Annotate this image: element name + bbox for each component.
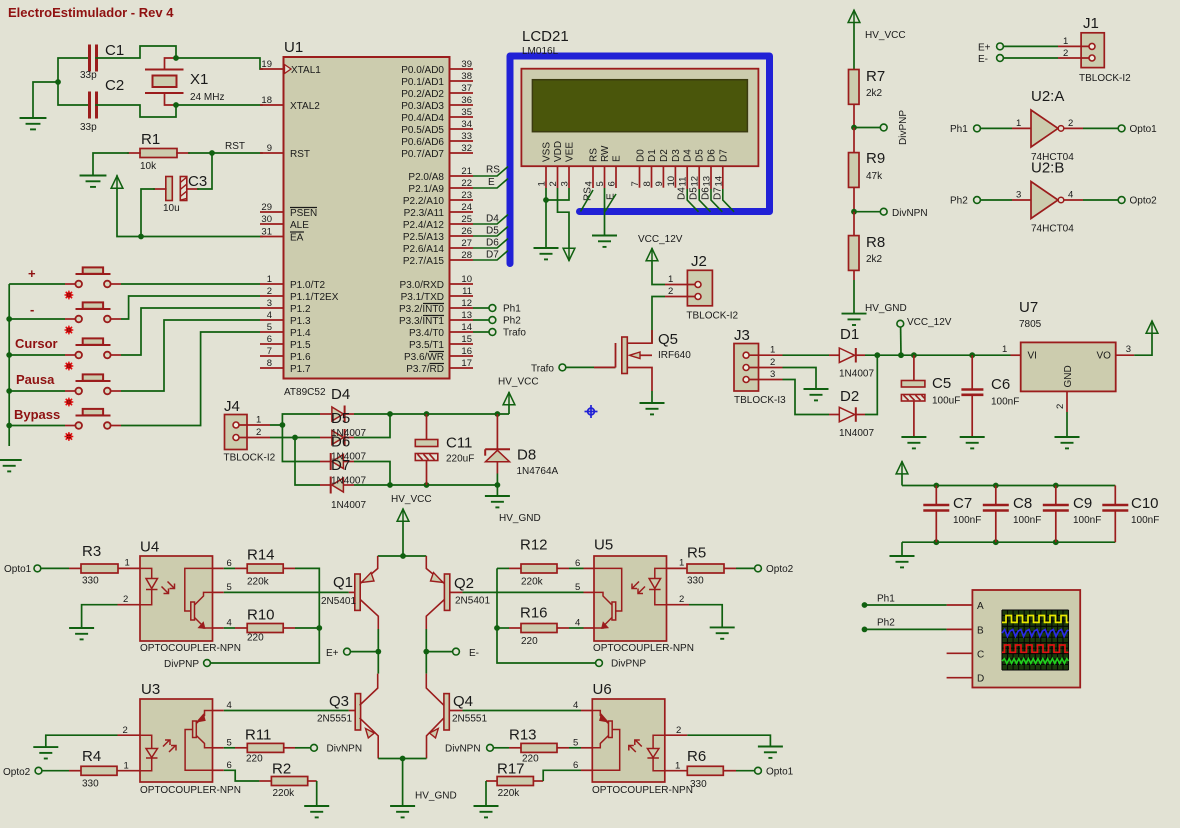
svg-text:220k: 220k <box>498 788 521 799</box>
bus blue <box>510 56 770 264</box>
svg-text:P2.7/A15: P2.7/A15 <box>403 256 445 267</box>
svg-text:2: 2 <box>676 725 681 736</box>
resistor R8 <box>849 212 886 280</box>
svg-text:HV_GND: HV_GND <box>865 303 907 314</box>
diode D8 zener <box>485 414 558 485</box>
wire btn1 to pin1 <box>121 283 260 285</box>
svg-text:D4: D4 <box>677 187 688 200</box>
svg-text:DivNPN: DivNPN <box>892 208 928 219</box>
svg-text:P0.5/AD5: P0.5/AD5 <box>401 125 444 136</box>
diode D1 <box>829 326 874 380</box>
svg-text:Cursor: Cursor <box>15 336 58 351</box>
svg-text:P1.5: P1.5 <box>290 340 311 351</box>
overbars PSEN EA <box>290 207 317 209</box>
svg-text:Ph1: Ph1 <box>950 124 968 135</box>
svg-text:5: 5 <box>595 181 606 186</box>
svg-text:OPTOCOUPLER-NPN: OPTOCOUPLER-NPN <box>593 643 694 654</box>
svg-text:8: 8 <box>267 358 272 369</box>
svg-text:12: 12 <box>461 298 472 309</box>
svg-text:16: 16 <box>461 346 472 357</box>
terminal Ph2 <box>489 317 496 324</box>
terminal DivNPN left <box>295 747 310 749</box>
svg-text:3: 3 <box>560 181 571 186</box>
svg-text:1: 1 <box>1016 118 1021 129</box>
trace A yellow <box>1002 616 1069 623</box>
left pin names <box>290 65 339 375</box>
optocoupler U5 <box>575 537 694 655</box>
svg-text:7: 7 <box>630 181 641 186</box>
wire R1 left to ground <box>93 153 128 176</box>
wire bridge minus rail <box>354 484 497 486</box>
svg-text:2: 2 <box>668 286 673 297</box>
svg-text:1N4007: 1N4007 <box>839 369 874 380</box>
svg-text:P1.4: P1.4 <box>290 328 311 339</box>
terminal Opto2 out <box>1083 199 1118 201</box>
svg-text:D1: D1 <box>840 326 859 343</box>
svg-text:25: 25 <box>461 214 472 225</box>
button MINUS <box>65 302 121 322</box>
terminal Opto1 right <box>736 770 755 772</box>
svg-text:220: 220 <box>246 754 263 765</box>
svg-text:R16: R16 <box>520 605 548 622</box>
svg-text:EA: EA <box>290 233 304 244</box>
lcd pin stubs <box>546 166 723 189</box>
wire RW to ground <box>604 188 606 236</box>
svg-text:C: C <box>977 649 984 660</box>
connector J3 TBLOCK-I3 <box>734 327 786 406</box>
wire U6 pin2 to ground <box>687 735 770 746</box>
svg-text:R5: R5 <box>687 545 706 562</box>
svg-text:B: B <box>977 625 984 636</box>
svg-text:VO: VO <box>1097 351 1112 362</box>
svg-text:4: 4 <box>267 310 272 321</box>
svg-text:6: 6 <box>267 334 272 345</box>
svg-text:OPTOCOUPLER-NPN: OPTOCOUPLER-NPN <box>140 643 241 654</box>
right pin numbers <box>461 59 472 369</box>
svg-text:32: 32 <box>461 143 472 154</box>
svg-text:330: 330 <box>687 576 704 587</box>
svg-text:+: + <box>28 266 36 281</box>
svg-text:C6: C6 <box>991 376 1010 393</box>
svg-text:P2.2/A10: P2.2/A10 <box>403 196 445 207</box>
button Pausa <box>65 374 121 394</box>
svg-text:OPTOCOUPLER-NPN: OPTOCOUPLER-NPN <box>592 785 693 796</box>
wire D5 from pin26 <box>473 227 508 237</box>
diode D4 <box>320 406 354 423</box>
svg-text:24: 24 <box>461 202 472 213</box>
wire to ground <box>901 542 903 556</box>
wire btn5 to pin5 <box>121 332 260 426</box>
node X1 top <box>173 55 179 61</box>
svg-text:5: 5 <box>267 322 272 333</box>
svg-text:D2: D2 <box>659 149 670 162</box>
svg-text:LM016L: LM016L <box>522 46 559 57</box>
svg-text:P3.3/INT1: P3.3/INT1 <box>399 316 444 327</box>
svg-text:Opto2: Opto2 <box>766 564 794 575</box>
resistor R10 <box>224 607 295 644</box>
svg-text:R11: R11 <box>245 727 271 744</box>
left pin stubs <box>260 69 284 368</box>
svg-text:D5: D5 <box>695 149 706 162</box>
svg-text:D5: D5 <box>689 187 700 200</box>
svg-text:Ph2: Ph2 <box>503 316 521 327</box>
svg-text:2: 2 <box>1068 118 1073 129</box>
optocoupler U6 <box>573 681 693 796</box>
svg-text:100nF: 100nF <box>991 397 1019 408</box>
lcd screen <box>532 80 747 132</box>
connector J4 TBLOCK-I2 <box>224 398 276 464</box>
svg-text:100nF: 100nF <box>953 515 981 526</box>
wire btn3 to pin3 <box>121 308 260 355</box>
resistor R3 <box>69 543 118 587</box>
svg-text:R1: R1 <box>141 131 160 148</box>
ic U1 body <box>284 57 450 379</box>
svg-text:TBLOCK-I2: TBLOCK-I2 <box>1079 73 1131 84</box>
wire D6 from pin27 <box>473 239 508 249</box>
ground HV_GND bridge <box>496 485 498 496</box>
svg-text:C9: C9 <box>1073 495 1092 512</box>
wire btn3 left <box>9 354 65 356</box>
wire C3 right to RST node <box>198 153 212 189</box>
terminal DivPNP right <box>596 660 603 667</box>
wire U5 pin2 to ground <box>689 605 722 628</box>
svg-text:2: 2 <box>123 594 128 605</box>
svg-text:P2.5/A13: P2.5/A13 <box>403 232 445 243</box>
svg-text:D1: D1 <box>647 149 658 162</box>
op-amp U2:A 74HCT04 <box>1012 88 1083 163</box>
svg-text:U7: U7 <box>1019 299 1038 316</box>
svg-text:C8: C8 <box>1013 495 1032 512</box>
wire J3 pin1 to D1 <box>783 354 830 356</box>
wire to HV_GND <box>402 759 404 807</box>
power arrow HV_VCC top <box>848 10 860 23</box>
svg-text:E: E <box>612 155 623 162</box>
wire left bus <box>8 284 10 446</box>
scope channel pins <box>947 605 973 678</box>
crystal X1 <box>146 58 224 105</box>
svg-text:P0.3/AD3: P0.3/AD3 <box>401 101 444 112</box>
svg-text:P1.1/T2EX: P1.1/T2EX <box>290 292 339 303</box>
resistor R11 <box>224 727 295 765</box>
svg-text:2: 2 <box>1055 404 1066 409</box>
capacitor C1 <box>80 42 124 81</box>
svg-text:3: 3 <box>770 369 775 380</box>
svg-text:11: 11 <box>462 286 472 297</box>
svg-text:C1: C1 <box>105 42 124 59</box>
svg-text:1: 1 <box>668 274 673 285</box>
wire arrow to J2 pin1 <box>652 261 665 285</box>
svg-text:Opto2: Opto2 <box>3 767 31 778</box>
svg-text:R2: R2 <box>272 761 291 778</box>
svg-text:Opto1: Opto1 <box>1130 124 1158 135</box>
svg-text:2: 2 <box>770 357 775 368</box>
svg-text:24 MHz: 24 MHz <box>190 92 224 103</box>
svg-text:Opto1: Opto1 <box>766 767 794 778</box>
svg-text:E: E <box>488 177 495 188</box>
svg-text:D0: D0 <box>636 149 647 162</box>
svg-text:R14: R14 <box>247 547 275 564</box>
svg-text:D: D <box>977 674 984 685</box>
svg-text:R6: R6 <box>687 748 706 765</box>
wire bridge bottom rail <box>378 758 426 760</box>
capacitor C5 <box>901 355 960 437</box>
svg-text:E+: E+ <box>326 648 339 659</box>
svg-text:Trafo: Trafo <box>503 328 526 339</box>
svg-text:TBLOCK-I2: TBLOCK-I2 <box>686 311 738 322</box>
svg-text:D4: D4 <box>683 149 694 162</box>
svg-text:330: 330 <box>690 779 707 790</box>
svg-text:J4: J4 <box>224 398 240 415</box>
svg-text:1N4764A: 1N4764A <box>517 466 559 477</box>
wire D5 bus entry <box>699 189 710 212</box>
lcd pin numbers rotated <box>537 176 725 187</box>
svg-text:1: 1 <box>679 558 684 569</box>
wire U7 out to arrow <box>1134 334 1152 356</box>
svg-text:13: 13 <box>461 310 472 321</box>
wire C3 left down to EA line <box>141 189 154 237</box>
svg-text:R17: R17 <box>497 761 525 778</box>
terminal E- <box>453 648 460 655</box>
optocoupler U3 <box>118 681 241 796</box>
wire Q2 collector to Q4 <box>425 629 427 674</box>
svg-text:TBLOCK-I3: TBLOCK-I3 <box>734 395 786 406</box>
svg-text:D6: D6 <box>707 149 718 162</box>
wire power to EA <box>117 189 262 237</box>
wire D2 to rail <box>865 355 877 414</box>
svg-text:7805: 7805 <box>1019 319 1042 330</box>
button Cursor <box>65 338 121 358</box>
node DivNPN <box>851 209 857 215</box>
trace D green <box>1002 659 1069 664</box>
svg-text:Opto2: Opto2 <box>1130 196 1158 207</box>
regulator U7 7805 <box>1002 299 1134 412</box>
svg-text:6: 6 <box>573 760 578 771</box>
svg-text:RST: RST <box>290 149 310 160</box>
node junction C1C2 <box>55 79 61 85</box>
svg-text:10k: 10k <box>140 161 157 172</box>
resistor R16 <box>497 605 584 648</box>
wire Q1 collector to Q3 <box>377 629 379 674</box>
svg-text:DivPNP: DivPNP <box>164 659 199 670</box>
svg-text:DivPNP: DivPNP <box>611 659 646 670</box>
svg-text:VDD: VDD <box>553 141 564 162</box>
right pin stubs <box>450 69 474 368</box>
svg-text:11: 11 <box>678 177 689 187</box>
svg-text:Q1: Q1 <box>333 574 353 591</box>
svg-text:4: 4 <box>584 181 595 186</box>
wire top rail <box>902 485 1115 487</box>
wire U7 gnd <box>1066 412 1068 437</box>
button Bypass <box>65 409 121 429</box>
svg-text:2: 2 <box>256 427 261 438</box>
svg-text:18: 18 <box>261 95 272 106</box>
led + transistor interior <box>140 711 213 771</box>
capacitor C7 <box>923 486 981 543</box>
svg-text:X1: X1 <box>190 71 208 88</box>
wire U4 pin5 to Q1 base <box>224 591 349 593</box>
svg-text:R7: R7 <box>866 68 885 85</box>
svg-text:8: 8 <box>642 181 653 186</box>
svg-text:2N5551: 2N5551 <box>317 714 352 725</box>
svg-text:2: 2 <box>1063 48 1068 59</box>
svg-text:220k: 220k <box>521 577 544 588</box>
svg-text:47k: 47k <box>866 171 883 182</box>
svg-text:19: 19 <box>261 59 272 70</box>
svg-text:RW: RW <box>600 145 611 162</box>
ground left bus <box>0 460 22 471</box>
svg-text:38: 38 <box>461 71 472 82</box>
resistor R9 <box>849 128 886 212</box>
svg-text:P0.0/AD0: P0.0/AD0 <box>401 65 444 76</box>
svg-text:14: 14 <box>461 322 472 333</box>
svg-text:330: 330 <box>82 576 99 587</box>
svg-text:J1: J1 <box>1083 15 1099 32</box>
svg-text:14: 14 <box>713 176 724 187</box>
svg-text:D7: D7 <box>719 149 730 162</box>
svg-text:HV_GND: HV_GND <box>415 791 457 802</box>
resistor R5 <box>687 545 736 587</box>
svg-text:6: 6 <box>607 181 618 186</box>
wire btn4 left <box>9 390 65 392</box>
svg-text:33: 33 <box>461 131 472 142</box>
svg-text:P2.4/A12: P2.4/A12 <box>403 220 445 231</box>
svg-text:9: 9 <box>654 181 665 186</box>
svg-text:VCC_12V: VCC_12V <box>907 317 952 328</box>
svg-text:39: 39 <box>461 59 472 70</box>
resistor R4 <box>69 748 117 790</box>
svg-text:33p: 33p <box>80 122 97 133</box>
svg-text:220uF: 220uF <box>446 454 474 465</box>
transistor Q2 2N5401 <box>426 556 583 629</box>
svg-text:2: 2 <box>267 286 272 297</box>
wire J4 pin2 to D5/D7 <box>270 437 320 439</box>
svg-text:3: 3 <box>1016 190 1021 201</box>
svg-text:HV_GND: HV_GND <box>499 513 541 524</box>
svg-text:2k2: 2k2 <box>866 254 883 265</box>
wire 12V rail <box>865 354 1011 356</box>
svg-text:220k: 220k <box>247 577 270 588</box>
svg-text:1N4007: 1N4007 <box>331 500 366 511</box>
svg-text:Q5: Q5 <box>658 331 678 348</box>
svg-text:J3: J3 <box>734 327 750 344</box>
wire riser R14/R10 to DivPNP <box>211 568 320 663</box>
svg-text:D8: D8 <box>517 447 536 464</box>
diode D7 <box>320 477 354 494</box>
ground R1 <box>81 176 106 187</box>
trace B blue <box>1002 630 1069 637</box>
svg-text:28: 28 <box>461 250 472 261</box>
svg-text:1: 1 <box>125 558 130 569</box>
svg-text:P3.4/T0: P3.4/T0 <box>409 328 444 339</box>
led + transistor interior <box>594 568 667 628</box>
wire btn1 left <box>9 283 65 285</box>
wire riser R12/R16 to DivPNP <box>497 568 596 663</box>
svg-text:D5: D5 <box>486 226 499 237</box>
terminal Trafo <box>489 329 496 336</box>
svg-text:C5: C5 <box>932 375 951 392</box>
svg-text:IRF640: IRF640 <box>658 350 691 361</box>
svg-text:R8: R8 <box>866 234 885 251</box>
svg-text:D6: D6 <box>486 238 499 249</box>
svg-text:2N5551: 2N5551 <box>452 714 487 725</box>
svg-text:E-: E- <box>978 54 988 65</box>
capacitor C11 <box>415 414 474 485</box>
svg-text:Ph1: Ph1 <box>877 594 895 605</box>
wire btn5 left <box>9 425 65 427</box>
svg-text:ElectroEstimulador - Rev 4: ElectroEstimulador - Rev 4 <box>8 5 174 20</box>
svg-text:1: 1 <box>124 761 129 772</box>
svg-text:4: 4 <box>573 700 578 711</box>
svg-text:Ph1: Ph1 <box>503 304 521 315</box>
svg-text:P3.7/RD: P3.7/RD <box>406 364 444 375</box>
svg-text:13: 13 <box>702 176 713 187</box>
svg-text:P0.6/AD6: P0.6/AD6 <box>401 137 444 148</box>
resistor R2 <box>224 761 317 800</box>
svg-text:DivNPN: DivNPN <box>327 744 363 755</box>
svg-text:D4: D4 <box>331 386 350 403</box>
svg-text:17: 17 <box>461 358 472 369</box>
svg-text:1: 1 <box>537 181 548 186</box>
svg-text:22: 22 <box>461 178 472 189</box>
diode D2 <box>829 388 874 439</box>
svg-text:P0.7/AD7: P0.7/AD7 <box>401 149 444 160</box>
svg-text:Ph2: Ph2 <box>877 618 895 629</box>
svg-text:U1: U1 <box>284 39 303 56</box>
svg-text:-: - <box>30 302 34 317</box>
svg-text:D7: D7 <box>486 250 499 261</box>
svg-text:1: 1 <box>770 345 775 356</box>
terminal Opto1 out <box>1083 127 1118 129</box>
svg-text:OPTOCOUPLER-NPN: OPTOCOUPLER-NPN <box>140 785 241 796</box>
svg-text:C11: C11 <box>446 435 472 452</box>
svg-text:33p: 33p <box>80 70 97 81</box>
terminal Ph1 <box>489 305 496 312</box>
svg-text:P2.1/A9: P2.1/A9 <box>408 184 444 195</box>
wire R1 right to RST <box>189 152 262 154</box>
svg-text:1: 1 <box>675 761 680 772</box>
svg-text:1: 1 <box>1002 344 1007 355</box>
svg-text:D6: D6 <box>701 187 712 200</box>
wire U4 pin2 to ground <box>82 605 118 628</box>
svg-text:P2.0/A8: P2.0/A8 <box>408 172 444 183</box>
wire C1 to XTAL1 <box>96 46 262 69</box>
wire E from pin22 <box>473 179 508 189</box>
led + transistor interior <box>140 568 213 628</box>
svg-text:4: 4 <box>575 618 580 629</box>
capacitor C3 <box>154 173 207 214</box>
svg-text:5: 5 <box>575 582 580 593</box>
svg-text:Q2: Q2 <box>454 575 474 592</box>
svg-text:26: 26 <box>461 226 472 237</box>
svg-text:P0.2/AD2: P0.2/AD2 <box>401 89 444 100</box>
svg-text:D7: D7 <box>712 187 723 200</box>
svg-text:P1.0/T2: P1.0/T2 <box>290 280 325 291</box>
wire ground stem <box>33 82 58 118</box>
svg-text:15: 15 <box>461 334 472 345</box>
svg-text:RST: RST <box>225 141 245 152</box>
svg-text:D2: D2 <box>840 388 859 405</box>
wire pin14 to Trafo <box>473 331 489 333</box>
svg-text:220: 220 <box>247 633 264 644</box>
terminal VCC_12V <box>897 320 904 327</box>
svg-text:P3.5/T1: P3.5/T1 <box>409 340 444 351</box>
led + transistor interior <box>592 711 665 771</box>
svg-text:D7: D7 <box>331 457 350 474</box>
svg-text:P1.6: P1.6 <box>290 352 311 363</box>
svg-text:U5: U5 <box>594 537 613 554</box>
svg-text:C10: C10 <box>1131 495 1159 512</box>
svg-text:DivNPN: DivNPN <box>445 744 481 755</box>
